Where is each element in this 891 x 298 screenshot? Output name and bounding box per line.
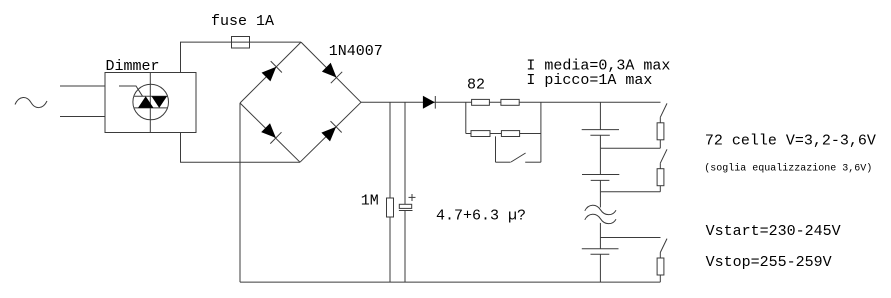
wire: capacitor branch vertical top	[404, 102, 406, 204]
resistor R3 82	[501, 99, 519, 105]
svg-text:82: 82	[467, 77, 485, 94]
svg-text:4.7+6.3 µ?: 4.7+6.3 µ?	[436, 208, 526, 225]
wire: branch 3 resistor to rail	[659, 275, 661, 282]
capacitor C1 bottom plate	[399, 210, 413, 212]
battery cell B1	[582, 130, 619, 136]
svg-text:(soglia equalizzazione 3,6V): (soglia equalizzazione 3,6V)	[704, 162, 872, 174]
diode D2 (bridge top-right)	[322, 63, 342, 83]
resistor R6 (balance 1)	[657, 123, 664, 140]
AC source V1	[15, 97, 47, 107]
svg-text:Vstart=230-245V: Vstart=230-245V	[706, 223, 841, 240]
wire: branch 3 top	[600, 237, 660, 239]
diode D4 (bridge bottom-right)	[321, 121, 341, 141]
battery string vertical segments	[599, 102, 601, 282]
wire: 82 network left vertical	[465, 102, 467, 133]
wire: branch 2 return	[600, 191, 660, 193]
bridge edge bottom-right	[300, 102, 361, 162]
diode D3 (bridge bottom-left)	[261, 123, 281, 143]
wire: 82 network bottom branch	[466, 133, 541, 135]
triac U1 right triangle	[152, 96, 168, 108]
triac U1 circle	[133, 84, 169, 120]
bridge edge top-left	[240, 42, 301, 103]
switch S3 (balance branch 2)	[660, 149, 667, 163]
switch S2 (balance branch 1)	[660, 103, 667, 117]
wire: branch 2 resistor to return	[659, 186, 661, 192]
wire: bridge negative arm down	[239, 103, 241, 282]
switch S4 (balance branch 3)	[660, 239, 667, 253]
switch S1	[496, 153, 541, 162]
resistor R1 1M	[387, 198, 394, 217]
resistor R4 82	[471, 131, 490, 137]
diode D1 (bridge top-left)	[262, 61, 282, 81]
svg-text:Vstop=255-259V: Vstop=255-259V	[706, 254, 832, 271]
diode D5 (series)	[423, 96, 435, 109]
wire: branch 3 to resistor	[659, 253, 661, 259]
triac U1 bottom bar	[134, 107, 168, 109]
battery cell B2	[582, 175, 619, 181]
resistor R2 82	[472, 99, 490, 105]
wire: positive rail	[361, 101, 661, 103]
wire: dimmer internal divider	[149, 73, 151, 133]
dimmer box	[105, 73, 196, 133]
wire: switch S1 drop	[495, 136, 497, 162]
wire: 82 network right vertical	[540, 102, 542, 162]
capacitor C1 plus sign	[409, 194, 416, 201]
triac U1 gate lead	[119, 86, 143, 96]
wire: 1M branch vertical	[389, 102, 391, 282]
svg-text:72 celle V=3,2-3,6V: 72 celle V=3,2-3,6V	[705, 133, 876, 150]
triac U1 top bar	[134, 95, 168, 97]
resistor R8 (balance 3)	[657, 258, 664, 275]
wire: dimmer bottom to bridge bottom	[181, 133, 301, 163]
wire: AC top lead	[60, 85, 105, 87]
bridge edge bottom-left	[240, 103, 300, 162]
wire: AC bottom lead	[60, 116, 105, 118]
resistor R7 (balance 2)	[657, 169, 664, 186]
svg-text:1N4007: 1N4007	[329, 43, 383, 60]
wire: branch 2 to resistor	[659, 163, 661, 169]
svg-text:Dimmer: Dimmer	[106, 58, 160, 75]
wire: bottom rail	[240, 281, 660, 283]
svg-text:I picco=1A max: I picco=1A max	[526, 72, 652, 89]
triac U1 left triangle	[138, 96, 154, 108]
wire: branch 1 to resistor	[659, 117, 661, 123]
capacitor C1 top plate	[399, 204, 411, 208]
wire: branch 1 resistor to return	[659, 140, 661, 148]
resistor R5 82	[501, 131, 519, 137]
battery cell B3	[582, 249, 619, 255]
wire: dimmer top to fuse to bridge top	[181, 42, 302, 72]
break squiggle bottom	[585, 214, 616, 223]
svg-text:fuse 1A: fuse 1A	[211, 13, 274, 30]
svg-text:1M: 1M	[361, 192, 379, 209]
break squiggle top	[585, 205, 616, 214]
fuse F1	[232, 37, 250, 49]
wire: branch 1 return	[600, 147, 660, 149]
wire: capacitor branch vertical bottom	[404, 211, 406, 283]
bridge edge top-right	[301, 42, 361, 102]
